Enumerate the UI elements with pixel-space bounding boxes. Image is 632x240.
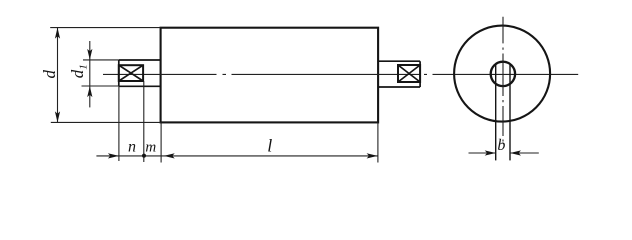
roller body — [161, 28, 379, 123]
svg-text:n: n — [128, 138, 136, 155]
extension line n right — [143, 81, 145, 162]
svg-text:d1: d1 — [68, 64, 90, 78]
extension line d1 bottom — [82, 85, 119, 87]
dimension line n m l — [96, 155, 377, 157]
shaft flat right — [509, 64, 511, 160]
arrow l right — [367, 153, 378, 158]
dimension b — [469, 150, 539, 155]
extension line d1 top — [83, 59, 119, 61]
bearing X-box right — [398, 65, 420, 82]
extension line n left — [118, 86, 120, 161]
extension line d top — [50, 27, 160, 29]
extension line l left — [160, 122, 162, 162]
junction dot — [142, 154, 146, 158]
bearing housing left — [119, 60, 161, 86]
svg-text:d: d — [40, 69, 59, 78]
extension line d bottom — [51, 121, 161, 123]
shaft flat left — [495, 64, 497, 160]
centerline horizontal — [103, 73, 578, 75]
bearing housing right — [378, 61, 420, 87]
arrow m l shared — [164, 153, 175, 158]
end view outer circle — [454, 26, 550, 122]
svg-text:l: l — [267, 135, 272, 155]
svg-text:b: b — [497, 137, 505, 154]
extension line l right — [377, 122, 379, 162]
arrow n — [108, 153, 119, 158]
bearing X-box left — [119, 65, 143, 81]
end view shaft circle — [491, 62, 515, 86]
dimension d — [55, 28, 60, 123]
centerline vertical — [502, 17, 504, 142]
svg-text:m: m — [145, 139, 156, 155]
dimension d1 — [87, 41, 92, 107]
